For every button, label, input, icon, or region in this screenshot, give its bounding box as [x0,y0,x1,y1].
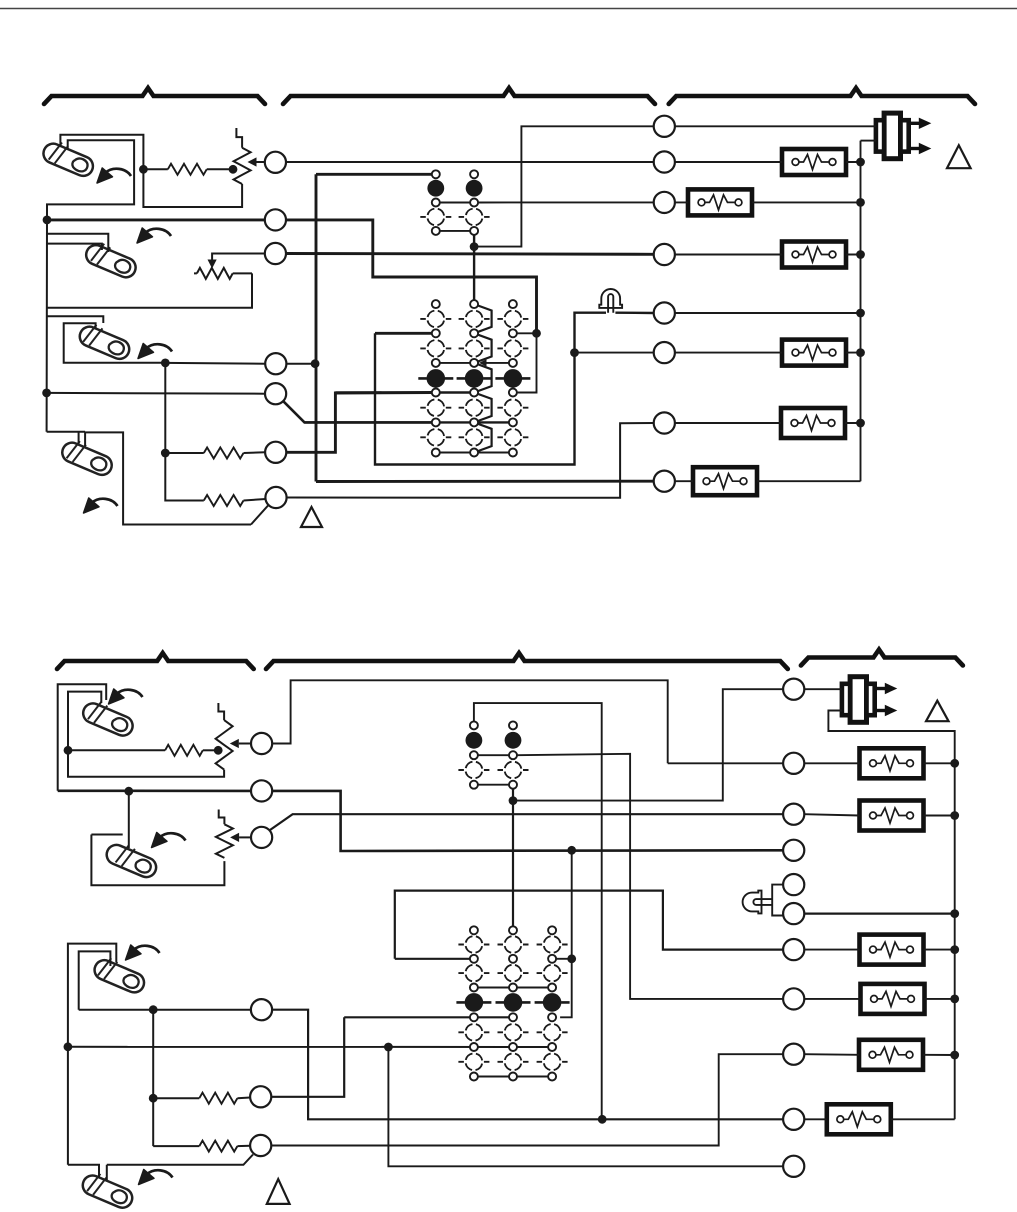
wire: col1-row2 frame run to terminal G (bottom) [395,891,783,959]
rotation arrow M2 (top) [137,228,171,243]
potentiometer: cool anticipator (bottom) [216,824,233,858]
relay coil box row H (bottom) [861,984,925,1014]
note triangle 2 (top, near terminal 7) [301,507,322,527]
wire: resistor to pot tap [203,749,216,751]
wire: resistor Y leads (bottom) [153,1145,250,1147]
wire: junction to terminal 4 [165,362,265,365]
brace: system section (bottom) [801,650,963,666]
wire: resistor leads [143,168,233,170]
indicator lamp (top) [599,289,622,313]
wire: lamp bracket (bottom) [772,885,783,916]
rotation arrow M2 (bottom) [152,833,186,848]
wire: fan junction down to system switch [473,247,475,300]
wire: terminal R1 row to terminal B [286,161,654,163]
brace: subbase section (bottom) [266,653,788,669]
wire: anticipator feed vertical (bottom) [152,1010,154,1146]
wire: to terminal 5 [47,392,266,395]
terminal 3 (top) [265,243,286,264]
mercury switch M3 (bottom) [92,954,149,996]
junction: bus row y=202.4 (top) [856,198,865,207]
switch wiper zigzag (top) [474,304,492,452]
wire: fan switch feed vertical and run to terminal H [316,174,654,481]
wire: power connector to right bus (bottom) [828,711,954,1120]
junction: bus row y=1055.0 (bottom) [950,1051,959,1060]
resistor: anticipator Y (bottom) [199,1141,237,1152]
mercury switch M3 (top) [77,320,134,362]
wire: terminal 3 diagonal run to terminal C (bottom) [270,814,783,830]
relay coil box row I (bottom) [859,1040,923,1070]
terminal C (top right) [654,192,675,213]
wire: junction to heat anticipator resistor (bottom) [68,749,165,751]
wire: row5 through all columns [305,421,509,423]
terminal 6 (bottom) [250,1135,271,1156]
wire: fan sw bottom connector [440,230,470,232]
wire: C row through box [675,201,861,203]
relay coil box row G (bottom) [860,935,924,965]
wire: terminal F to bus (bottom) [804,912,954,914]
relay coil box row H (top) [693,467,757,495]
wire: wiper to terminal 3 (bottom) [239,836,250,838]
brace: thermostat section (top) [44,88,265,104]
wire: M3 outer loop down to M4 (bottom) [68,944,116,1165]
junction: terminal2 net / col3 row2 [532,329,541,338]
wire: fan col1 top feed down right side (bottom) [474,703,602,1119]
wire: pot top lead [236,128,242,148]
wire: bus top to power connector [861,140,877,142]
system selector switch contact matrix (bottom) [456,926,569,1080]
junction: row5 / branch down (bottom) [384,1043,393,1052]
junction: bus row y=815.5 (bottom) [950,811,959,820]
wire: terminal 6 up to switch row 4 [286,393,431,453]
wire: terminal A to power connector (bottom) [804,688,842,690]
terminal 4 (top) [265,353,286,374]
resistor: heat anticipator (top) [168,164,207,175]
relay coil box row J (bottom) [827,1104,891,1134]
terminal A (bottom right) [783,679,804,700]
terminal D (bottom right) [783,840,804,861]
junction: terminal 4 wire / anticipator vertical (bottom) [149,1005,158,1014]
wire: G row box to bus (bottom) [804,949,954,951]
note triangle 1 (top) [947,145,971,168]
wire: inner loop vertical down to resistor Y [165,363,204,501]
rotation arrow M4 (top) [84,498,118,513]
junction: terminal 2 wire / M2 electrode (bottom) [124,787,133,796]
junction: fan bottom (bottom) [509,796,518,805]
terminal E (bottom right) [783,874,804,895]
terminal G (top right) [654,412,675,433]
brace: system equipment section (top) [669,88,975,104]
terminal D (top right) [654,244,675,265]
wire: M3 inner loop to terminal 4 (bottom) [79,1009,251,1011]
wiper arrow into pot (bottom heat) [230,739,239,748]
rotation arrow M1 (bottom) [109,689,143,704]
brace: subbase section (top) [283,88,655,104]
wire: terminal 4 to fan feed vertical [286,363,315,365]
wire: fan col2 bottom to junction (bottom) [512,789,514,801]
terminal C (bottom right) [783,804,804,825]
relay coil box row B (bottom) [860,748,924,778]
terminal F (top right) [654,342,675,363]
wire: left common vertical with M2 enclosure branches [47,220,252,432]
wire: row5 long run (bottom) [68,1046,548,1048]
rotation arrow M3 (bottom) [126,945,160,960]
wire: H row through box [675,480,861,482]
wire: fan junction down to system switch (bottom) [512,801,514,926]
wire: col3 row2 to vertical [517,332,536,334]
relay coil box row C (bottom) [860,801,924,831]
wiper arrow into pot (top) [248,157,257,166]
mercury switch M2 (top cool) [83,239,140,281]
mercury switch M2 (bottom) [104,838,161,880]
junction: M3 loop / terminal 4 wire [161,359,170,368]
resistor: heat anticipator (bottom) [165,745,203,756]
junction: bus row y=352.6 (top) [856,348,865,357]
wire: terminal 2 long run to switch col3 [47,220,537,333]
wiper arrow into pot (bottom cool) [230,833,239,842]
wire: resistor Y to terminal 7 [244,499,266,501]
junction: bulb M1 loop / terminal 2 wire [43,216,52,225]
terminal 5 (bottom) [250,1086,271,1107]
wire: row3 connector (bottom) [478,987,548,989]
junction: common vertical / terminal 5 wire [42,389,51,398]
wire: terminal 3 row to terminal D [286,252,654,256]
junction: bus row y=254.5 (top) [856,250,865,259]
wire: fan row3 run to terminal H (bottom) [478,754,783,999]
wire: terminal 5 up to switch row4 (bottom) [271,1017,344,1097]
wire: terminal 5 diagonal to switch row 5 [283,401,432,423]
wire: vertical to col3 row4 [517,333,536,392]
wire: H row box to bus (bottom) [804,998,954,1000]
terminal 7 (top) [265,487,286,508]
terminal A (top right) [654,116,675,137]
wire: E row to bus [675,312,861,314]
resistor: anticipator W (bottom) [199,1093,237,1104]
junction: fan bottom / feeds [470,242,479,251]
terminal H (top right) [654,471,675,492]
wire: frame run col1-row2 around to terminal E (through lamp) [375,313,654,465]
terminal 3 (bottom) [251,827,272,848]
relay coil box row D (top) [782,242,846,268]
wiper arrow down into pot (top) [208,260,217,269]
mercury switch M4 (bottom) [80,1169,137,1211]
wire: right common bus (top) [860,141,862,482]
wire: row2 to frame (col1) [375,332,432,335]
terminal R1 wiper (top) [265,152,286,173]
wire: M3 inner loop (bottom) [79,951,111,1009]
junction: bus row y=913.6 (bottom) [950,909,959,918]
wire: M1 outer loop (bottom) [58,684,106,791]
wire: fan bottom connector (bottom) [478,784,509,786]
terminal B (bottom right) [783,753,804,774]
mercury switch M1 (bottom) [80,697,137,739]
wire: wiper to terminal R1 [257,161,265,163]
wire: fan sw row3 to terminal C [440,201,654,203]
wire: terminal 4 run to terminal J (bottom) [272,1010,783,1120]
junction: bus row y=998.9 (bottom) [950,995,959,1004]
wire: branch down to terminal K (bottom) [388,1047,783,1166]
wire: M4 electrode A feed (bottom) [68,1165,99,1178]
wire: pot top lead (bottom cool) [219,810,225,825]
wire: terminal 7 long run up to terminal G [287,423,654,498]
wire: G row through box [675,422,861,424]
terminal 4 (bottom) [251,999,272,1020]
wire: row4 through col1 to col2 [335,391,469,393]
note triangle 2 (bottom left) [267,1179,290,1204]
brace: thermostat section (bottom) [57,653,254,669]
system selector switch contact matrix (top) [418,300,530,456]
wire: vertical to col3 row4 (bottom) [560,850,572,1017]
wire: F row through box [675,352,861,354]
terminal J (bottom right) [783,1109,804,1130]
rotation arrow M3 (top) [138,344,172,359]
wire: D row through box [675,254,861,256]
potentiometer: heat anticipator (bottom) [216,720,233,770]
junction: bus row y=949.6 (bottom) [950,945,959,954]
junction: M1 loop / resistor (bottom) [64,746,73,755]
wire: terminal A to power connector [675,125,876,127]
wire: row3 col1-col2 [440,362,470,364]
junction: M1 loop / heat anticipator resistor [139,165,148,174]
terminal H (bottom right) [783,988,804,1009]
wire: M1 electrode B loop to pot bottom (bottom) [68,692,224,777]
junction: J-run / fan feed vertical (bottom) [598,1115,607,1124]
terminal R1 wiper (bottom) [251,733,272,754]
indicator lamp (bottom) [743,891,773,914]
wire: fan junction up to terminal A [474,126,654,246]
wire: wiper to terminal R1 (bottom) [239,743,251,745]
junction: vertical / resistor W (bottom) [149,1094,158,1103]
wire: fan col2 bottom to junction [473,235,475,246]
wire: M1 electrode A loop to anticipator junction and pot bottom [60,135,242,207]
terminal K (bottom right) [783,1156,804,1177]
terminal F (bottom right) [783,903,804,924]
junction: bus row y=423.0 (top) [856,419,865,428]
relay coil box row C (top) [688,189,752,215]
wire: col3 row2 to vertical (bottom) [556,958,571,960]
resistor: anticipator Y (top) [204,495,244,506]
wire: terminal 7 diagonal to M4 loop [123,505,268,525]
relay coil box row B (top) [782,149,846,175]
rotation arrow M1 (top) [97,168,131,183]
mercury switch M4 (top) [59,436,116,478]
wire: frame to terminal F [575,352,654,354]
note triangle 1 (bottom) [926,701,949,722]
wire: C row box to bus (bottom) [804,814,954,815]
wire: B row through box [675,161,861,163]
wire: J row box to bus (bottom) [804,1118,954,1120]
terminal 2 (bottom) [251,780,272,801]
rotation arrow M4 (bottom) [139,1170,173,1185]
wire: fan junction to terminal A (bottom) [513,689,783,800]
potentiometer: cool anticipator (top) [197,268,233,279]
resistor: anticipator W (top) [204,448,244,459]
wire: pot leads [194,272,252,274]
wire: M3 outer loop bottom and M4 electrode feeds [47,316,190,524]
junction: bus row y=162.0 (top) [856,158,865,167]
wire: junction to anticipator resistor W [165,452,204,454]
terminal 2 (top) [265,209,286,230]
terminal E (top right) [654,302,675,323]
fan switch contact stack (top) [420,170,489,235]
junction: bus row y=763.3 (bottom) [950,759,959,768]
junction: resistor tap on pot [229,165,238,174]
junction: resistor W / M3 inner loop vertical [161,449,170,458]
wire: M3 inner loop to junction [64,323,166,363]
wire: B row box to bus (bottom) [804,762,954,764]
potentiometer: heat anticipator scale (top) [234,148,251,184]
junction: frame / terminal F wire [570,348,579,357]
relay coil box row G (top) [781,408,845,438]
power connector (top) [876,113,931,159]
junction: M3 outer / row5 wire (bottom) [64,1042,73,1051]
wire: resistor W to terminal 6 [244,451,266,454]
wire: down to M2 electrode (bottom) [128,791,130,848]
junction: bus row y=313.0 (top) [856,309,865,318]
wire: row4 through col1 col2 (bottom) [344,1016,509,1018]
arrow connector col3 to col2 row3 (top) [482,362,509,364]
wire: resistor W leads (bottom) [153,1097,250,1100]
wire: row6 connector (bottom) [478,1076,548,1078]
mercury switch M1 (top heat) [40,137,97,179]
junction: resistor tap on pot (bottom) [214,746,223,755]
terminal 6 (top) [265,442,286,463]
wire: pot top lead (bottom) [218,703,224,720]
terminal G (bottom right) [783,939,804,960]
junction: terminal 4 / fan feed vertical [311,359,320,368]
terminal 5 (top) [265,383,286,404]
wire: M1 electrode B inner loop down to terminal-2 net [47,140,134,220]
wire: M2 electrode B to common vertical [47,234,109,252]
wire: M2 enclosure loop (bottom) [91,835,224,886]
junction: D-run / col3 vertical (bottom) [567,846,576,855]
fan switch contact stack (bottom) [458,721,528,788]
wire: terminal 2 run to terminal D (bottom) [58,791,783,851]
power connector (bottom) [842,677,897,723]
relay coil box row F (top) [782,340,846,366]
wire: row6 connector [440,452,509,454]
wire: I row box to bus (bottom) [804,1053,954,1056]
wire: row2 to col1 (bottom) [395,958,470,960]
wire: terminal 6 run to terminal I (bottom) [271,1054,783,1145]
wire: terminal R1 run to terminal B (bottom) [272,680,783,763]
page top rule [0,8,1017,10]
terminal B (top right) [654,151,675,172]
wire: terminal 6 diagonal to M4 electrode (bottom) [107,1155,253,1181]
junction: col3 row2 / vertical (bottom) [567,954,576,963]
terminal I (bottom right) [783,1044,804,1065]
wire: wiper to terminal 3 [212,254,265,260]
